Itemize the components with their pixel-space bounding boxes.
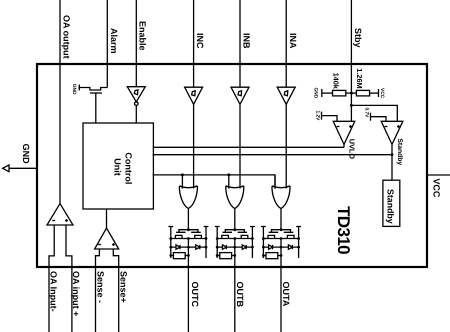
svg-text:INC: INC	[195, 33, 205, 49]
svg-text:OUTC: OUTC	[190, 282, 200, 308]
svg-text:INA: INA	[288, 33, 298, 49]
svg-text:140k: 140k	[332, 73, 341, 90]
svg-text:TD310: TD310	[334, 206, 353, 254]
svg-text:Control: Control	[123, 152, 133, 184]
svg-text:Sense+: Sense+	[118, 271, 128, 303]
svg-text:1.2V: 1.2V	[315, 111, 321, 122]
svg-text:GND: GND	[21, 144, 31, 165]
svg-text:OA Input-: OA Input-	[49, 271, 59, 312]
svg-text:OUTB: OUTB	[235, 282, 245, 308]
svg-text:Stby: Stby	[353, 28, 363, 48]
svg-text:Standby: Standby	[396, 138, 403, 165]
svg-text:Alarm: Alarm	[109, 28, 119, 54]
svg-text:1.26M: 1.26M	[355, 68, 364, 88]
svg-text:OA output: OA output	[62, 15, 72, 59]
svg-text:Standby: Standby	[386, 189, 396, 224]
svg-text:INB: INB	[241, 33, 251, 49]
svg-text:OA input +: OA input +	[71, 271, 81, 316]
svg-text:Enable: Enable	[137, 21, 147, 51]
svg-text:OUTA: OUTA	[281, 282, 291, 307]
svg-text:UVLO: UVLO	[347, 139, 356, 160]
svg-text:GND: GND	[71, 84, 77, 95]
svg-text:Unit: Unit	[113, 158, 123, 176]
svg-text:GND: GND	[313, 88, 319, 99]
svg-text:0.7V: 0.7V	[364, 108, 370, 119]
svg-text:VCC: VCC	[379, 88, 385, 99]
svg-text:Sense -: Sense -	[95, 271, 105, 303]
svg-text:VCC: VCC	[431, 178, 441, 198]
